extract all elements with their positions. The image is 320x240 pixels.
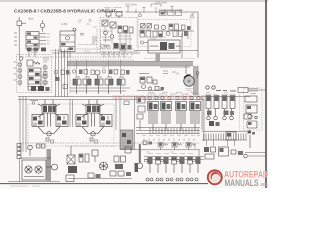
block A port row — [27, 48, 46, 52]
logo emblem — [208, 170, 222, 184]
fan motor box — [148, 40, 180, 53]
right accessory feed ticks — [248, 89, 258, 94]
svg-text:Aux: Aux — [29, 17, 34, 21]
valve spool pair — [169, 24, 179, 30]
reducing valve spools — [118, 26, 133, 33]
port circle — [19, 57, 23, 61]
manifold right stub — [195, 144, 199, 164]
pilot valve block A — [26, 32, 39, 50]
lr box — [219, 147, 229, 156]
right accessory enclosure — [244, 88, 263, 130]
wires to right border — [245, 152, 266, 156]
filter box with X — [67, 146, 75, 164]
group labels — [205, 93, 235, 95]
groups enclosure edges — [203, 95, 240, 131]
standpipe circle — [137, 163, 143, 169]
main pump M1 — [184, 75, 195, 86]
return dark cluster — [68, 166, 77, 173]
bank port label row — [142, 135, 200, 137]
relief valve — [17, 17, 26, 32]
junction circle — [30, 101, 38, 105]
tank footnote text — [10, 185, 40, 187]
manifold side label lines — [43, 58, 49, 62]
bundle inline valves — [55, 77, 68, 89]
bank left column — [137, 97, 145, 130]
block A port labels — [47, 34, 50, 47]
svg-text:A.SV: A.SV — [62, 22, 68, 26]
inter-unit wires — [70, 100, 73, 128]
cooler enclosure — [137, 20, 191, 47]
shuttle up stems — [77, 60, 121, 77]
right feed dashes — [216, 90, 236, 93]
shuttle valve row units — [73, 77, 125, 94]
suction pipe gray — [47, 149, 52, 181]
cylinder group 2 — [222, 96, 235, 120]
return stub valve — [124, 101, 129, 105]
cooler row2 valves — [140, 30, 188, 37]
gauge G1 — [40, 20, 45, 32]
lr bits — [231, 150, 247, 158]
standpipe dark blob — [135, 163, 139, 172]
pilot line bundle — [56, 49, 68, 97]
upper small-symbol row — [54, 70, 129, 79]
check element — [92, 150, 98, 162]
bank label row — [148, 92, 199, 94]
solenoid coils — [104, 12, 123, 19]
return dashed rails — [20, 143, 199, 146]
bank port tick row — [144, 139, 194, 142]
bank divider wire — [120, 97, 141, 151]
small valve bits — [37, 144, 46, 148]
pilot supply dashed wires — [78, 29, 101, 53]
manifold inline circles — [145, 159, 196, 162]
bank comb ticks — [150, 128, 198, 134]
bank group 3 — [176, 96, 187, 130]
solenoid valve SV1 — [102, 20, 108, 26]
right drop wires — [116, 97, 120, 131]
bottom page border — [0, 183, 208, 185]
standpipe — [139, 144, 141, 163]
relief valve w/ spring — [27, 60, 40, 66]
small port — [182, 25, 191, 30]
svg-text:(294.2kPa): (294.2kPa) — [155, 1, 167, 4]
manifold right column bits — [44, 64, 48, 86]
check ball circles — [104, 31, 114, 38]
bank group 1 — [148, 96, 159, 130]
manifold left column bits — [18, 61, 22, 87]
return gray column — [194, 66, 199, 96]
port circles row — [206, 86, 215, 89]
shuttle circle — [95, 70, 100, 81]
svg-text:CX230B-8 / CXB235B-8 HYDRAULI: CX230B-8 / CXB235B-8 HYDRAULIC CIRCUIT — [14, 8, 116, 14]
manifold feed rail — [140, 150, 204, 160]
manifold top bits — [143, 141, 152, 145]
solenoid block enclosure — [100, 18, 138, 52]
check valve sq — [141, 24, 159, 30]
wire top bracket to solenoid block — [125, 12, 198, 58]
strainer circle — [52, 164, 58, 170]
mid cluster rects — [114, 156, 126, 169]
solenoid internal wires — [101, 26, 132, 48]
fan box labels — [150, 37, 166, 39]
left drop wires — [20, 97, 26, 153]
manifold left ticks — [14, 62, 17, 80]
accumulator stack — [17, 144, 21, 159]
spool stack — [28, 68, 47, 90]
group mid dark cluster — [207, 111, 234, 127]
stray pilot marks — [78, 19, 97, 27]
low rail — [68, 178, 132, 180]
band drop wire — [185, 66, 187, 74]
header gauge tick marks — [127, 4, 181, 13]
bank bus rails — [136, 128, 200, 134]
long rail upper — [18, 97, 250, 100]
pump label — [185, 89, 193, 91]
block A port lines — [14, 33, 46, 45]
solenoid valve SV2 — [110, 22, 116, 28]
lower box — [66, 175, 74, 182]
cylinder group 1 — [206, 96, 219, 120]
bank group 2 — [161, 96, 172, 130]
cooler row3 bits — [140, 41, 148, 44]
wire fan drop — [181, 33, 183, 58]
accessory box low — [226, 132, 236, 140]
main gray supply band — [67, 61, 193, 66]
manifold cluster labels — [146, 152, 193, 154]
wire drops from pilot blocks — [19, 32, 70, 58]
shuttle rails — [70, 88, 130, 91]
manifold enclosure — [17, 55, 52, 93]
right feed box — [238, 88, 266, 93]
small box — [125, 147, 131, 153]
solenoid block drops — [104, 52, 124, 58]
block B port marks — [80, 34, 97, 44]
right accessory column — [244, 96, 257, 148]
wire cooler feed — [146, 31, 194, 39]
svg-text:MANUALS: MANUALS — [225, 178, 259, 188]
bracket accessory marks — [139, 10, 195, 18]
gear pump unit — [20, 158, 52, 180]
lr cluster — [204, 147, 216, 159]
filter circle — [28, 145, 33, 156]
dotted rail — [144, 58, 196, 60]
tank rail — [8, 158, 60, 182]
pilot valve block B — [60, 28, 76, 52]
valve pair — [79, 154, 89, 162]
manifold upper valve row — [158, 143, 196, 151]
travel motor unit 2 — [76, 100, 112, 144]
manifold valve cluster row — [148, 157, 201, 173]
low row rects — [110, 171, 131, 176]
svg-text:autorepairmanuals.ws: autorepairmanuals.ws — [112, 93, 207, 102]
gauge circle — [161, 25, 165, 29]
motor section enclosure — [28, 104, 114, 146]
mid tiny labels — [30, 51, 119, 71]
low bits — [88, 173, 101, 178]
right page border — [265, 0, 267, 188]
cross rails — [20, 47, 134, 94]
small relief at pump — [196, 72, 199, 79]
manifold bottom dark cells — [31, 86, 50, 91]
accumulator cluster — [103, 40, 132, 50]
solenoid labels — [104, 8, 122, 10]
top scan edge line — [0, 0, 268, 2]
svg-text:.ws: .ws — [260, 182, 268, 188]
bank group 4 — [190, 96, 201, 130]
header tiny labels — [125, 1, 167, 6]
suction drop gray — [156, 53, 161, 62]
gauge port circles — [146, 178, 198, 181]
svg-text:(294.2kPa): (294.2kPa) — [125, 4, 137, 7]
oil cooler fan — [100, 162, 108, 170]
return block gray — [120, 130, 133, 149]
pump port marks — [163, 71, 176, 74]
rail solid — [52, 51, 204, 142]
pilot pump cluster — [137, 74, 164, 91]
right comb row — [202, 131, 247, 146]
solenoid port ticks — [101, 54, 133, 56]
travel motor unit 1 — [32, 100, 68, 144]
